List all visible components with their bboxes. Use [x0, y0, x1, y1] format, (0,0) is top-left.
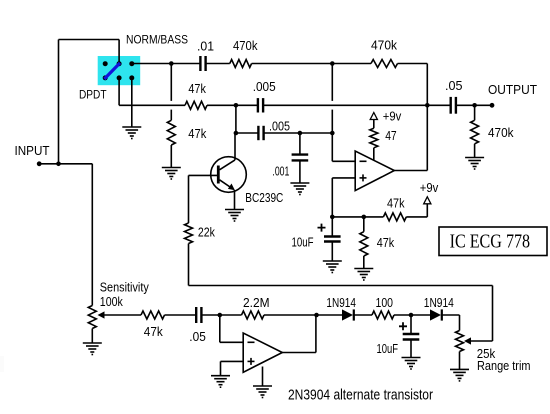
- svg-text:2N3904 alternate transistor: 2N3904 alternate transistor: [288, 387, 433, 404]
- svg-text:470k: 470k: [371, 37, 397, 52]
- ground 25k pot: [450, 368, 469, 370]
- wire 47k to .05: [165, 314, 197, 316]
- wire 2.2M to diode: [264, 314, 342, 316]
- svg-text:+9v: +9v: [383, 108, 402, 123]
- wire .05 to 2.2M: [201, 314, 241, 316]
- resistor 470k pulldown: [471, 120, 479, 144]
- wire row A top: [59, 39, 120, 41]
- ground bass shunt: [162, 167, 181, 169]
- wire 47k bass bottom: [170, 145, 172, 168]
- ground 10uF AGC: [402, 357, 421, 359]
- wire op-amp2 output: [282, 352, 316, 354]
- wire to .05: [427, 104, 450, 106]
- svg-text:OUTPUT: OUTPUT: [488, 82, 537, 97]
- wire 10uF2 top: [410, 315, 412, 334]
- resistor 47k AGC: [141, 311, 165, 319]
- wire output riser column: [426, 64, 428, 171]
- wire collector: [234, 133, 236, 160]
- resistor 100: [372, 311, 394, 319]
- wire row E to +9v: [406, 216, 427, 218]
- node bias cap tap: [330, 215, 335, 220]
- wire row B from switch: [132, 63, 201, 65]
- wire pot bottom: [91, 329, 93, 344]
- svg-text:NORM/BASS: NORM/BASS: [126, 33, 188, 47]
- wire +9v to 47: [373, 120, 375, 129]
- wire op-amp2 plus: [221, 360, 244, 362]
- resistor 47k bias lower: [363, 217, 365, 232]
- node OUTPUT terminal: [490, 103, 495, 108]
- resistor 47: [370, 128, 378, 148]
- svg-text:47k: 47k: [144, 324, 163, 339]
- wire 25k bottom: [459, 352, 461, 370]
- DPDT switch contacts: [103, 61, 135, 80]
- resistor 47k vertical bass: [167, 120, 175, 145]
- wire to op-amp minus input: [332, 160, 355, 162]
- wire 10uF2 bottom: [410, 340, 412, 358]
- wire 10uF bias bottom: [331, 242, 333, 262]
- wire switch right pole down: [131, 78, 133, 127]
- potentiometer Sensitivity 100k: [88, 306, 96, 329]
- wire row D left segment: [236, 132, 259, 134]
- DPDT switch highlight box: [98, 56, 141, 85]
- capacitor 10uF AGC: [403, 333, 420, 335]
- svg-text:470k: 470k: [488, 125, 514, 140]
- potentiometer 25k range trim: [456, 331, 464, 352]
- wire op-amp output: [394, 170, 427, 172]
- diode 1N914 second: [430, 309, 441, 320]
- svg-text:2.2M: 2.2M: [243, 295, 270, 310]
- wire diode2 to 25k: [442, 314, 459, 316]
- node op-amp2 output tap: [314, 313, 319, 318]
- grey scan artifact left edge: [0, 356, 4, 372]
- wire diode to 100: [354, 314, 372, 316]
- box IC ECG 778: [439, 227, 547, 256]
- power +9v arrow bias: [424, 197, 431, 204]
- svg-text:1N914: 1N914: [424, 295, 454, 310]
- node output tap: [425, 103, 430, 108]
- svg-text:100k: 100k: [100, 295, 124, 309]
- wire row D right segment: [264, 132, 333, 134]
- capacitor .001: [292, 153, 309, 155]
- wire 470k pulldown bottom: [474, 144, 476, 158]
- svg-text:INPUT: INPUT: [15, 143, 50, 158]
- ground op-amp2 plus: [211, 375, 230, 377]
- wiper arrow 25k: [464, 337, 471, 344]
- wire .001 top: [299, 133, 301, 155]
- svg-text:Sensitivity: Sensitivity: [100, 280, 150, 294]
- node input junction: [56, 162, 61, 167]
- wire input horizontal: [39, 163, 92, 165]
- wire wiper to 47k: [104, 314, 141, 316]
- op-amp U1: [355, 151, 394, 191]
- node op-amp2 minus tap: [218, 313, 223, 318]
- wire row E: [332, 216, 383, 218]
- wire AGC rail right riser: [492, 286, 494, 342]
- resistor 22k: [185, 223, 193, 244]
- resistor 2.2M: [242, 311, 265, 319]
- wire op-amp2 minus: [219, 315, 221, 342]
- wire AGC rail: [189, 285, 493, 287]
- capacitor .05 output: [450, 97, 452, 114]
- svg-text:DPDT: DPDT: [79, 88, 107, 102]
- ground emitter: [225, 209, 244, 211]
- ground 10uF bias: [323, 260, 342, 262]
- transistor Q1 BC239C: [211, 157, 247, 193]
- capacitor .005 second: [257, 126, 259, 140]
- svg-text:+9v: +9v: [420, 180, 439, 195]
- svg-text:IC ECG 778: IC ECG 778: [450, 231, 530, 253]
- node row B feedback tap: [330, 61, 335, 66]
- ground output pulldown: [465, 157, 484, 159]
- label + 10uF bias: [318, 224, 326, 232]
- svg-text:.005: .005: [269, 118, 290, 133]
- resistor 470k second: [371, 60, 398, 68]
- svg-text:.001: .001: [272, 164, 289, 179]
- power +9v arrow U1: [370, 113, 377, 120]
- node row D feedback corner: [330, 131, 335, 136]
- wire op-amp2 V-: [262, 367, 264, 387]
- op-amp U2: [243, 333, 282, 372]
- diode 1N914 first: [342, 309, 353, 320]
- node bias divider tap: [362, 215, 367, 220]
- wire 47k to .005: [207, 104, 258, 106]
- label + 10uF AGC: [399, 322, 407, 330]
- svg-text:.05: .05: [445, 78, 463, 93]
- svg-text:47k: 47k: [188, 126, 206, 141]
- wire 47k bias lower bottom: [363, 256, 365, 269]
- capacitor .01: [199, 56, 201, 71]
- wire base column top: [188, 175, 190, 223]
- svg-text:47: 47: [385, 128, 397, 143]
- wire down to sensitivity pot: [91, 164, 93, 306]
- node .001 tap: [298, 131, 303, 136]
- svg-text:.005: .005: [253, 79, 276, 94]
- svg-text:47k: 47k: [188, 81, 206, 96]
- ground op-amp2 supply: [253, 385, 272, 387]
- svg-text:.01: .01: [197, 38, 214, 53]
- node collector tap row C: [234, 103, 239, 108]
- svg-text:Range trim: Range trim: [477, 359, 531, 373]
- wire switch to row C: [118, 78, 120, 105]
- node 470k pulldown tap: [472, 103, 477, 108]
- wire to switch top middle: [118, 40, 120, 64]
- wire 470k to 470k: [252, 63, 371, 65]
- node row B / 47k tap: [169, 61, 174, 66]
- ground .001: [290, 182, 309, 184]
- wire 100 to diode2: [394, 314, 430, 316]
- node INPUT terminal: [37, 161, 42, 166]
- svg-text:1N914: 1N914: [326, 295, 356, 310]
- wire wiper to rail: [469, 340, 493, 342]
- svg-text:BC239C: BC239C: [245, 191, 283, 205]
- resistor 47k bias upper: [383, 213, 406, 221]
- resistor 47k series input: [185, 101, 207, 109]
- wire row B right end: [398, 63, 428, 65]
- wire collector column: [235, 105, 237, 133]
- ground below switch: [122, 126, 141, 128]
- node 10uF tap: [409, 313, 414, 318]
- wire base: [189, 174, 218, 176]
- wire emitter: [234, 190, 236, 210]
- svg-text:.05: .05: [189, 329, 206, 344]
- svg-text:10uF: 10uF: [292, 234, 314, 249]
- wiper arrow sensitivity: [98, 311, 105, 318]
- wire plus input down to bias: [331, 178, 333, 217]
- DPDT switch blue lever: [104, 63, 120, 79]
- capacitor .05 AGC: [195, 307, 197, 323]
- svg-text:10uF: 10uF: [377, 341, 399, 356]
- wire 470k pulldown top: [474, 105, 476, 120]
- wire op-amp plus input: [332, 177, 355, 179]
- ground sensitivity pot: [83, 342, 102, 344]
- capacitor .005 first: [257, 98, 259, 112]
- wire input vertical riser: [58, 40, 60, 164]
- node row D left: [234, 131, 239, 136]
- svg-text:47k: 47k: [387, 196, 405, 211]
- wire .001 bottom: [299, 160, 301, 183]
- wire 47 to op-amp V+: [373, 148, 375, 161]
- capacitor 10uF bias: [331, 217, 333, 237]
- svg-text:100: 100: [376, 295, 394, 310]
- wire 22k to AGC rail: [188, 244, 190, 286]
- wire row C to output column: [263, 104, 427, 106]
- wire .05 to OUTPUT: [456, 104, 492, 106]
- wire 47k bass shunt top: [170, 64, 172, 101]
- wire feedback column: [331, 64, 333, 101]
- svg-text:22k: 22k: [198, 225, 215, 240]
- wire .01 to 470k: [206, 63, 230, 65]
- svg-text:47k: 47k: [377, 235, 395, 250]
- svg-text:470k: 470k: [233, 38, 258, 53]
- ground 47k bias: [354, 268, 373, 270]
- resistor 470k first: [230, 60, 252, 68]
